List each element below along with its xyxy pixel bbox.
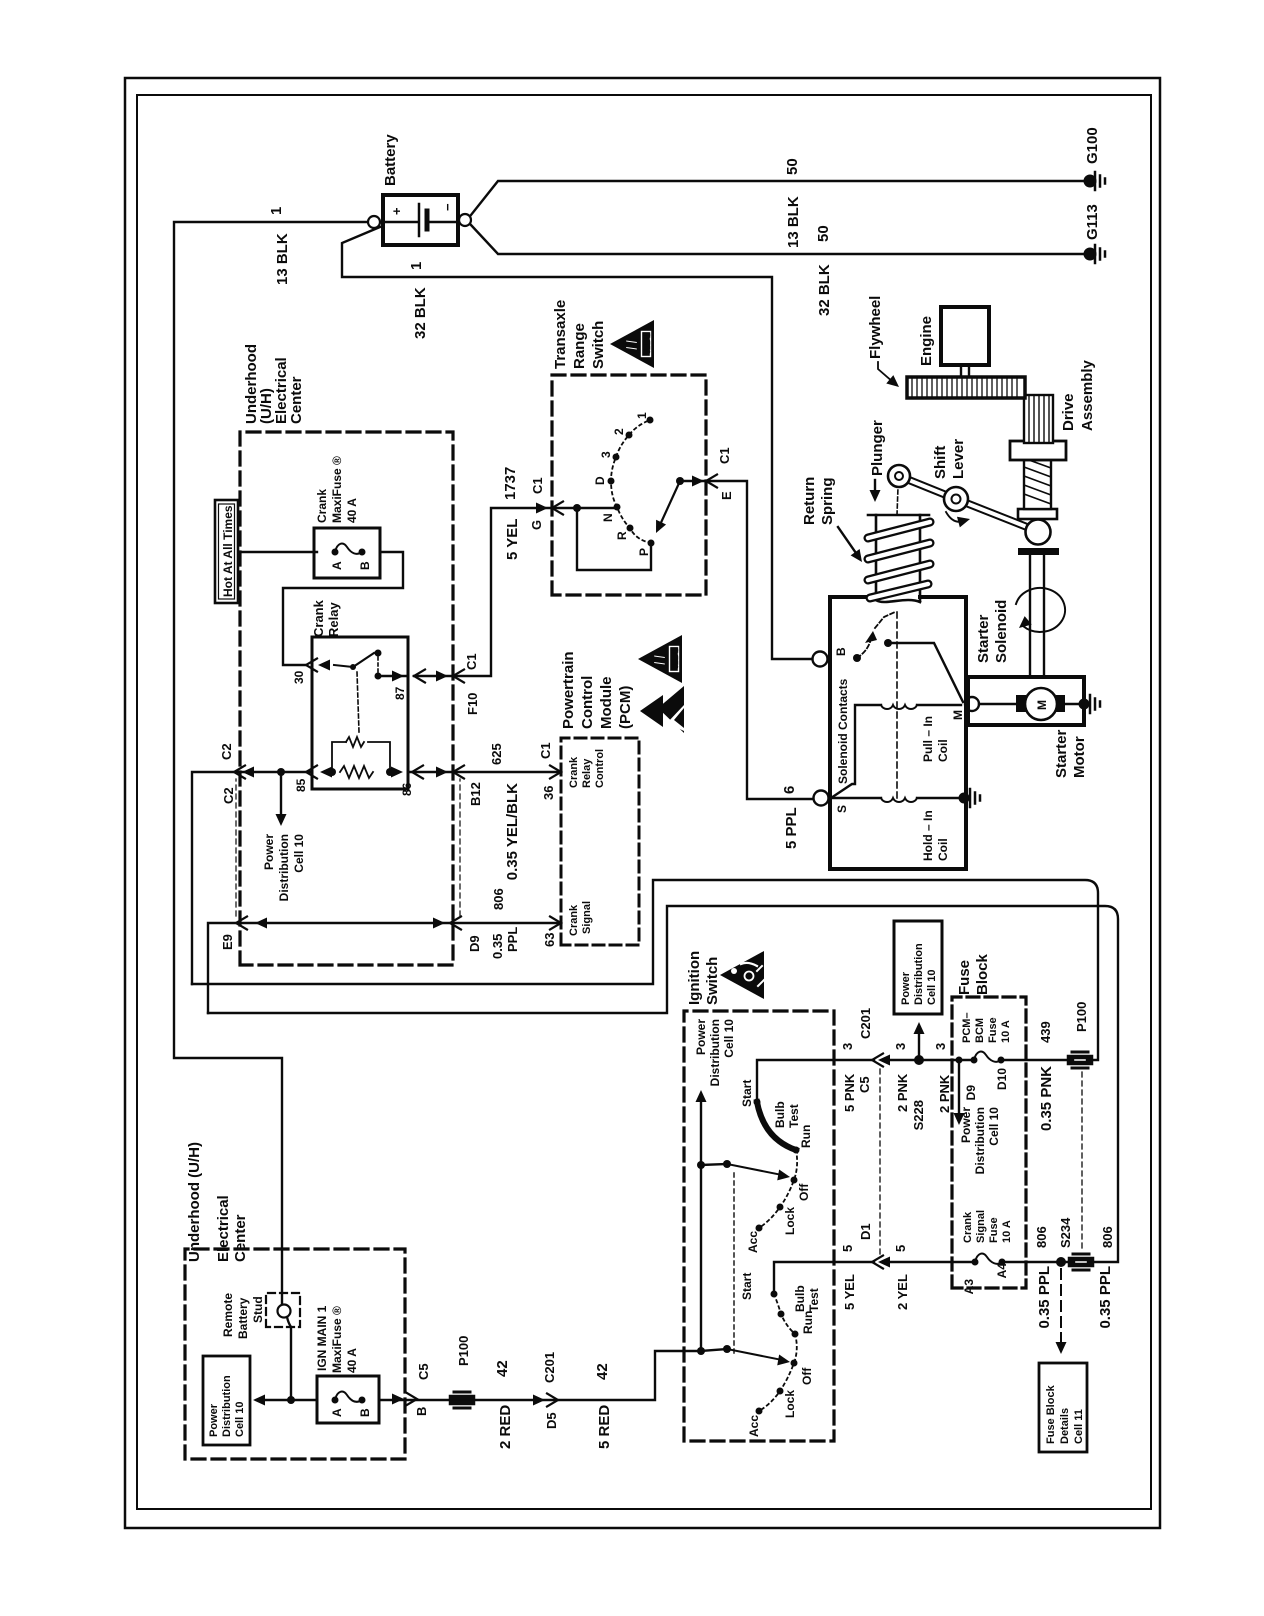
svg-text:S228: S228: [911, 1100, 926, 1130]
svg-text:Run: Run: [799, 1125, 813, 1148]
wafer link dashed: [733, 1172, 735, 1353]
flywheel ring gear: [907, 377, 1025, 398]
svg-text:5: 5: [840, 1245, 855, 1252]
svg-text:5 RED: 5 RED: [596, 1405, 613, 1449]
ground G113: [1084, 248, 1097, 261]
svg-text:30: 30: [292, 670, 306, 684]
svg-text:M: M: [1035, 700, 1049, 710]
svg-text:Power: Power: [900, 971, 912, 1005]
terminal M: [965, 697, 979, 711]
battery positive terminal: [368, 216, 380, 228]
wafer2 junction and selector: [697, 1347, 705, 1355]
wire C201 to S228 to fuse block: [192, 880, 1098, 1060]
svg-text:D9: D9: [467, 935, 482, 952]
power distribution cell 10 label (ignition): [694, 1019, 736, 1087]
PCM-BCM fuse element: [974, 1052, 1001, 1062]
main feed bus wire (2 RED 42 / 5 RED 42): [262, 1351, 701, 1400]
svg-text:G113: G113: [1084, 204, 1101, 240]
relay pin 30 marker: [306, 659, 317, 672]
crank relay box: [312, 637, 408, 789]
svg-text:Fuse: Fuse: [956, 960, 973, 995]
svg-text:Relay: Relay: [581, 758, 593, 788]
IGN MAIN 1 MaxiFuse box: [317, 1376, 379, 1423]
svg-text:Crank: Crank: [311, 599, 326, 637]
rotation arrow around shaft: [1016, 588, 1065, 632]
svg-text:13 BLK: 13 BLK: [785, 196, 802, 248]
svg-text:BCM: BCM: [974, 1018, 986, 1043]
pull-in coil: [831, 705, 881, 798]
connector C201 pin D1 markers on YEL wire: [872, 1256, 883, 1269]
solenoid internal ground: [959, 793, 970, 804]
junction node on G wire: [573, 504, 581, 512]
wafer1 output wire 5 PNK: [757, 1060, 874, 1102]
svg-text:Battery: Battery: [236, 1297, 250, 1339]
engine connecting stubs: [961, 365, 969, 377]
svg-text:C201: C201: [542, 1352, 557, 1383]
svg-text:Assembly: Assembly: [1079, 359, 1096, 431]
svg-text:Fuse: Fuse: [987, 1017, 999, 1043]
svg-text:6: 6: [781, 786, 798, 794]
starter motor box: [968, 677, 1084, 725]
fuse block dashed box: [952, 997, 1026, 1288]
switch contacts P R N D 3 2 1: [608, 417, 655, 547]
svg-text:5 PPL: 5 PPL: [783, 807, 800, 849]
wafer1 bold arc start-run: [757, 1102, 796, 1150]
motor armature: [979, 703, 1016, 705]
svg-text:36: 36: [541, 786, 556, 800]
hot at all times tag: [215, 500, 238, 603]
drive assembly label: [1060, 359, 1096, 431]
crank signal pin label: [568, 901, 593, 936]
wafer2 labels: [740, 1273, 821, 1437]
terminal S: [814, 791, 829, 806]
OBD II double triangle symbol (PCM): [640, 686, 684, 733]
svg-text:Start: Start: [740, 1273, 754, 1300]
svg-text:M: M: [951, 710, 965, 720]
page outer border frame: [125, 78, 1160, 1528]
drive assembly collar large: [1010, 441, 1066, 460]
svg-text:C201: C201: [858, 1008, 873, 1039]
svg-text:Range: Range: [571, 323, 588, 369]
svg-text:G: G: [529, 520, 544, 530]
crank maxifuse box: [314, 528, 380, 578]
page inner border frame: [137, 95, 1151, 1509]
svg-text:Signal: Signal: [975, 1210, 987, 1243]
svg-text:Power: Power: [262, 834, 276, 870]
connector link C2-E9 dashed: [235, 779, 237, 916]
selector arm with arrow: [676, 477, 684, 485]
fixed contact to M terminal: [884, 639, 892, 647]
svg-text:625: 625: [489, 743, 504, 765]
connector link B12-D9 dashed: [459, 779, 461, 916]
pin 36 C1 marker at PCM: [550, 766, 561, 779]
connector pin B / C5 at UEC2 edge: [392, 1394, 404, 1405]
svg-text:3: 3: [840, 1043, 855, 1050]
svg-text:Ignition: Ignition: [686, 951, 703, 1005]
svg-text:32 BLK: 32 BLK: [412, 287, 429, 339]
svg-text:Cell 10: Cell 10: [722, 1019, 736, 1058]
fuse element IGN MAIN 1: [335, 1392, 362, 1402]
svg-text:2 PNK: 2 PNK: [937, 1074, 952, 1113]
plunger body: [876, 515, 920, 602]
svg-text:806: 806: [1034, 1226, 1049, 1248]
shaft end bar: [1018, 548, 1059, 555]
remote battery stud terminal: [278, 1305, 291, 1318]
svg-text:N: N: [601, 513, 615, 522]
wire junction to P contact: [577, 508, 651, 570]
svg-text:5 PNK: 5 PNK: [842, 1073, 857, 1112]
svg-text:G100: G100: [1084, 127, 1101, 164]
svg-text:Starter: Starter: [1053, 729, 1070, 778]
svg-text:Powertrain: Powertrain: [560, 651, 577, 729]
svg-text:3: 3: [893, 1043, 908, 1050]
svg-text:E9: E9: [220, 934, 235, 950]
wire D1 to crank signal fuse to S234: [208, 906, 1118, 1262]
svg-text:Center: Center: [232, 1214, 249, 1262]
svg-text:Electrical: Electrical: [215, 1195, 232, 1262]
svg-text:5: 5: [893, 1245, 908, 1252]
svg-text:D10: D10: [995, 1068, 1009, 1090]
svg-text:Switch: Switch: [590, 321, 607, 369]
return spring label with arrow: [801, 477, 836, 525]
svg-text:Details: Details: [1059, 1408, 1071, 1444]
svg-text:1737: 1737: [502, 467, 519, 500]
power distribution cell 10 box (UEC2): [203, 1356, 250, 1445]
D9 marker at UEC1 bottom edge: [433, 918, 445, 929]
remote battery stud dashed box: [266, 1293, 300, 1327]
svg-text:32 BLK: 32 BLK: [816, 264, 833, 316]
svg-text:2 RED: 2 RED: [497, 1405, 514, 1449]
svg-text:Bulb: Bulb: [773, 1101, 787, 1128]
svg-text:Cell 10: Cell 10: [292, 834, 306, 873]
svg-text:63: 63: [542, 933, 557, 947]
shift lever label: [932, 439, 967, 479]
svg-text:3: 3: [933, 1043, 948, 1050]
connector E9 markers: [255, 918, 267, 929]
pin 85 marker: [306, 766, 317, 779]
svg-text:B: B: [834, 647, 848, 656]
wafer1 junction and selector: [697, 1161, 705, 1169]
svg-text:Hot At All Times: Hot At All Times: [221, 505, 235, 597]
ignition feed wire into wafer2 junction: [700, 1350, 702, 1352]
svg-text:Power: Power: [208, 1403, 220, 1437]
svg-text:1: 1: [635, 412, 649, 419]
ignition power line: [700, 1096, 702, 1351]
relay contact dashed link: [377, 657, 379, 672]
UEC1 edge marker F10/C1: [436, 671, 448, 682]
wire G to N contact: [552, 507, 617, 509]
svg-text:Fuse Block: Fuse Block: [1045, 1384, 1057, 1444]
svg-text:B: B: [414, 1407, 429, 1416]
pinion gear: [1024, 395, 1053, 443]
warning symbol (ignition switch): [720, 951, 764, 999]
svg-text:Drive: Drive: [1060, 393, 1077, 431]
pin 63 marker at PCM: [550, 917, 561, 930]
svg-text:806: 806: [491, 888, 506, 910]
splice S228: [914, 1055, 924, 1065]
P100 dashed connector link: [1081, 1072, 1083, 1248]
branch S228 to power distribution box: [918, 1030, 920, 1060]
splice S234: [1056, 1257, 1066, 1267]
svg-text:C1: C1: [717, 447, 732, 464]
svg-text:S234: S234: [1058, 1217, 1073, 1248]
C201 dashed connector link: [879, 1068, 881, 1254]
arrow into power distribution box: [253, 1395, 265, 1406]
svg-text:Cell 10: Cell 10: [987, 1107, 1001, 1146]
drive assembly splined shaft: [1024, 460, 1051, 509]
svg-text:A: A: [330, 1408, 344, 1417]
svg-text:F10: F10: [465, 693, 480, 715]
PNK wire labels at C201: [840, 1008, 910, 1112]
svg-text:B12: B12: [468, 782, 483, 806]
svg-text:5 YEL: 5 YEL: [842, 1274, 857, 1310]
svg-text:−: −: [440, 203, 455, 211]
svg-text:Plunger: Plunger: [869, 420, 886, 476]
svg-text:PCM–: PCM–: [961, 1012, 973, 1043]
transaxle range switch dashed box: [552, 375, 706, 595]
svg-text:Pull – In: Pull – In: [921, 716, 935, 762]
svg-text:40 A: 40 A: [345, 1348, 359, 1373]
pin 87 wire out of relay: [382, 508, 552, 676]
svg-text:Motor: Motor: [1071, 736, 1088, 778]
svg-text:Signal: Signal: [581, 901, 593, 934]
svg-text:Cell 11: Cell 11: [1073, 1409, 1085, 1444]
svg-text:2: 2: [612, 428, 626, 435]
svg-text:0.35 PPL: 0.35 PPL: [1097, 1266, 1114, 1329]
IGN MAIN 1 MaxiFuse label: [315, 1305, 359, 1373]
terminal B: [813, 652, 828, 667]
wire 13 BLK 50 to G100: [471, 181, 1090, 215]
svg-text:1: 1: [408, 262, 425, 270]
svg-text:Coil: Coil: [936, 838, 950, 861]
svg-text:Coil: Coil: [936, 739, 950, 762]
svg-text:Return: Return: [801, 477, 818, 525]
underhood electrical center 1 dashed box: [240, 432, 453, 965]
svg-text:P100: P100: [456, 1336, 471, 1366]
svg-text:0.35 YEL/BLK: 0.35 YEL/BLK: [504, 783, 521, 880]
svg-text:A3: A3: [962, 1279, 976, 1295]
wire C2 crank relay coil feed: [192, 772, 561, 984]
wafer1 labels: [740, 1080, 813, 1253]
svg-text:IGN MAIN 1: IGN MAIN 1: [315, 1305, 329, 1371]
starter motor label: [1053, 729, 1088, 778]
svg-text:A: A: [330, 561, 344, 570]
svg-text:Crank: Crank: [315, 489, 329, 523]
svg-text:0.35 PNK: 0.35 PNK: [1038, 1066, 1055, 1131]
svg-text:Power: Power: [694, 1019, 708, 1055]
svg-text:Power: Power: [959, 1107, 973, 1143]
relay coil winding zigzag on main wire: [340, 766, 373, 778]
svg-text:C2: C2: [219, 743, 234, 760]
drive assembly collar small: [1018, 509, 1057, 519]
contact labels: [593, 412, 651, 556]
svg-text:Remote: Remote: [221, 1293, 235, 1337]
contact arc dotted: [611, 420, 651, 543]
svg-text:Control: Control: [594, 749, 606, 788]
svg-text:Battery: Battery: [382, 134, 399, 186]
inline connector P100 on PNK wire: [1069, 1052, 1091, 1068]
svg-text:0.35 PPL: 0.35 PPL: [1036, 1266, 1053, 1329]
svg-text:P100: P100: [1074, 1002, 1089, 1032]
wire 32 BLK 1 from battery + to solenoid B: [342, 227, 813, 659]
svg-text:85: 85: [294, 778, 308, 792]
svg-text:D: D: [593, 476, 607, 485]
svg-text:+: +: [389, 207, 404, 215]
hold-in coil: [829, 797, 881, 799]
svg-text:R: R: [615, 531, 629, 540]
wire E out of switch: [680, 481, 814, 799]
svg-text:13 BLK: 13 BLK: [274, 233, 291, 285]
svg-text:P: P: [637, 548, 651, 556]
svg-text:MaxiFuse ®: MaxiFuse ®: [330, 456, 344, 523]
svg-text:2 PNK: 2 PNK: [895, 1073, 910, 1112]
pull-in coil label: [921, 716, 950, 762]
svg-text:C1: C1: [530, 477, 545, 494]
battery B1: [383, 195, 458, 245]
plunger dashed centerline: [896, 610, 898, 798]
svg-text:D1: D1: [858, 1223, 873, 1240]
PCM label: [560, 651, 634, 729]
return spring coils over plunger: [868, 522, 930, 598]
svg-text:50: 50: [784, 158, 801, 175]
svg-text:Shift: Shift: [932, 446, 949, 479]
fuse block details cell 11 box: [1039, 1363, 1087, 1452]
wafer2 output wire 5 YEL: [774, 1262, 874, 1294]
crank signal fuse element: [975, 1254, 1002, 1264]
svg-text:Solenoid: Solenoid: [993, 600, 1010, 663]
svg-text:439: 439: [1038, 1021, 1053, 1043]
svg-text:D9: D9: [964, 1085, 978, 1101]
shift lever: [899, 476, 1032, 529]
wafer1 contacts: [754, 1099, 800, 1232]
battery negative terminal: [459, 214, 471, 226]
B contact and moving contact: [853, 654, 861, 662]
svg-text:C5: C5: [416, 1363, 431, 1380]
svg-text:3: 3: [599, 451, 613, 458]
connector C2 markers at UEC1 edge: [242, 767, 254, 778]
wire 13 BLK 1 from battery + to remote battery stud: [174, 222, 366, 1305]
svg-text:Cell 10: Cell 10: [926, 970, 938, 1005]
junction node on bus: [287, 1396, 295, 1404]
svg-text:86: 86: [400, 782, 414, 796]
svg-text:10 A: 10 A: [1000, 1020, 1012, 1043]
UEC1 label: [243, 344, 305, 424]
svg-text:Distribution: Distribution: [708, 1019, 722, 1086]
svg-text:C1: C1: [538, 742, 553, 759]
starter solenoid label: [975, 600, 1010, 663]
coil wire arrows at pins 85/86: [320, 767, 332, 778]
svg-text:Engine: Engine: [918, 316, 935, 366]
svg-text:5 YEL: 5 YEL: [504, 519, 521, 560]
starter output shaft: [1030, 553, 1044, 677]
svg-text:MaxiFuse ®: MaxiFuse ®: [330, 1306, 344, 1373]
svg-text:Distribution: Distribution: [913, 943, 925, 1005]
svg-text:Block: Block: [974, 953, 991, 995]
svg-text:Control: Control: [579, 676, 596, 729]
wire stud to main bus: [287, 1317, 291, 1400]
svg-text:Run: Run: [801, 1311, 815, 1334]
relay armature dashed link to coil: [357, 672, 359, 732]
arrow to power distribution cell 10: [280, 772, 282, 820]
svg-text:Acc: Acc: [747, 1415, 761, 1437]
svg-text:87: 87: [393, 686, 407, 700]
svg-text:10 A: 10 A: [1001, 1220, 1013, 1243]
svg-text:Module: Module: [598, 677, 615, 730]
svg-text:Distribution: Distribution: [277, 834, 291, 901]
starter solenoid box: [830, 597, 966, 869]
svg-text:Hold – In: Hold – In: [921, 810, 935, 861]
ignition switch dashed box: [684, 1011, 834, 1441]
svg-text:806: 806: [1100, 1226, 1115, 1248]
svg-text:Test: Test: [807, 1288, 821, 1312]
svg-text:Relay: Relay: [326, 602, 341, 637]
wafer2 contacts: [756, 1291, 799, 1415]
inline connector C201 pin D5: [533, 1395, 545, 1406]
crank relay label: [311, 599, 341, 637]
svg-text:0.35: 0.35: [490, 934, 505, 959]
svg-text:Acc: Acc: [746, 1231, 760, 1253]
YEL wire labels at C201: [840, 1223, 910, 1310]
svg-text:C2: C2: [221, 787, 236, 804]
svg-text:Starter: Starter: [975, 614, 992, 663]
svg-text:Cell 10: Cell 10: [234, 1402, 246, 1437]
svg-text:42: 42: [594, 1363, 611, 1380]
powertrain control module dashed box: [561, 738, 639, 945]
svg-text:A4: A4: [995, 1263, 1009, 1279]
dashed branch S234 to fuse block details: [1060, 1269, 1062, 1346]
svg-text:Bulb: Bulb: [793, 1285, 807, 1312]
hold-in coil label: [921, 810, 950, 861]
pivot rotation arrow: [946, 512, 966, 522]
svg-text:Crank: Crank: [962, 1211, 974, 1243]
drive assembly ball joint: [1026, 520, 1051, 545]
svg-text:C5: C5: [857, 1076, 872, 1093]
svg-text:2 YEL: 2 YEL: [895, 1274, 910, 1310]
UEC2 label: [186, 1142, 249, 1262]
svg-text:Distribution: Distribution: [221, 1375, 233, 1437]
svg-text:D5: D5: [544, 1412, 559, 1429]
wire tag to crank maxifuse: [240, 551, 317, 553]
pin 86 marker: [412, 766, 423, 779]
svg-text:Center: Center: [288, 376, 305, 424]
fuse block label: [956, 953, 991, 995]
svg-text:Start: Start: [740, 1080, 754, 1107]
crank maxifuse label: [315, 456, 359, 523]
wire E9/D9 crank signal: [208, 923, 561, 1013]
connector C201 pin C5 markers on PNK wire: [872, 1054, 883, 1067]
branch to power distribution (fuse block): [956, 1057, 963, 1064]
wire 32 BLK 50 to G113: [471, 225, 1090, 254]
svg-text:S: S: [835, 805, 849, 813]
underhood electrical center 2 (bottom-left area of schematic) dashed box: [185, 1249, 405, 1459]
svg-text:Off: Off: [800, 1367, 814, 1385]
svg-text:Underhood (U/H): Underhood (U/H): [186, 1142, 203, 1262]
OBD II symbol (PCM): [638, 635, 682, 683]
svg-text:Crank: Crank: [568, 756, 580, 788]
svg-text:Spring: Spring: [819, 478, 836, 526]
svg-text:Off: Off: [797, 1183, 811, 1201]
wafer1 dotted arc: [759, 1150, 797, 1228]
crank relay control pin label: [568, 749, 606, 788]
svg-text:40 A: 40 A: [345, 498, 359, 523]
svg-text:B: B: [358, 561, 372, 570]
fuse element crank maxifuse: [335, 544, 362, 554]
transaxle switch pin G marker: [536, 503, 548, 514]
power distribution cell 10 box (S228): [894, 921, 942, 1014]
svg-text:(PCM): (PCM): [617, 686, 634, 729]
pivot dashed link to plunger: [897, 487, 898, 515]
junction node power distribution branch: [277, 768, 285, 776]
